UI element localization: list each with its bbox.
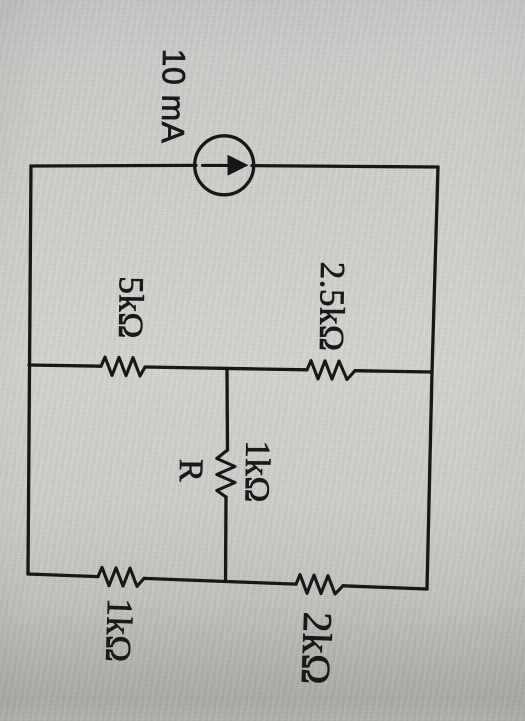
current source arrow shaft bbox=[203, 164, 231, 167]
svg-text:2.5kΩ: 2.5kΩ bbox=[312, 262, 352, 352]
wire bottom middle segment bbox=[144, 578, 296, 584]
svg-text:5kΩ: 5kΩ bbox=[111, 276, 151, 339]
svg-text:1kΩ: 1kΩ bbox=[238, 440, 278, 503]
wire middle vertical upper bbox=[225, 369, 229, 450]
svg-text:10 mA: 10 mA bbox=[155, 48, 192, 144]
wire middle horizontal right bbox=[355, 371, 432, 372]
resistor 2kΩ zigzag bbox=[296, 575, 343, 594]
current source arrow head bbox=[228, 155, 249, 176]
resistor 1kΩ bottom zigzag bbox=[98, 567, 144, 586]
svg-text:1kΩ: 1kΩ bbox=[98, 598, 140, 664]
wire top right segment bbox=[252, 166, 438, 167]
wire right vertical bbox=[427, 167, 438, 589]
wire bottom left segment bbox=[28, 574, 98, 577]
wire middle horizontal center bbox=[145, 367, 307, 370]
wire left vertical bbox=[28, 166, 31, 574]
resistor R 1kΩ zigzag vertical bbox=[217, 450, 235, 497]
svg-text:R: R bbox=[172, 459, 209, 483]
resistor 2.5kΩ zigzag bbox=[307, 361, 355, 380]
resistor 5kΩ zigzag bbox=[101, 357, 145, 376]
wire middle vertical lower bbox=[224, 497, 228, 582]
wire bottom right segment bbox=[343, 586, 427, 589]
current source I1 circle bbox=[195, 136, 254, 195]
wire middle horizontal left bbox=[29, 365, 101, 366]
wire top left segment bbox=[31, 164, 196, 168]
svg-text:2kΩ: 2kΩ bbox=[293, 611, 342, 686]
